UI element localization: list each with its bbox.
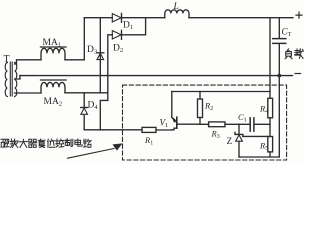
reset wire into box with resistor R1 [84,129,171,131]
svg-text:Z: Z [227,137,233,147]
wire vertical A from plus rail through D3 [99,18,101,93]
wire D2 cathode to plus rail junction [122,18,146,35]
plus rail [84,17,293,19]
wire D2 anode [108,35,113,101]
svg-text:MA2: MA2 [44,97,63,108]
svg-text:D4: D4 [88,101,99,112]
MA1 label [43,38,62,49]
mid wire with R3 [198,123,251,125]
capacitor CT plates [273,39,286,44]
svg-text:R1: R1 [144,135,153,147]
transistor base bar [176,117,178,128]
svg-text:L: L [173,2,179,12]
transformer core [10,62,12,96]
minus terminal [295,73,301,75]
svg-text:D2: D2 [113,44,123,55]
internal top wire [172,91,270,93]
minus rail / center tap wire [20,75,293,77]
zener triangle [236,135,243,141]
MA2 label [44,97,63,108]
magamp MA1 winding [41,48,65,60]
transistor emitter with arrow [172,92,175,120]
svg-text:V1: V1 [160,118,169,130]
transistor V1 [160,118,169,130]
resistor R2 [199,92,201,125]
wire MA1 output to D1 riser [65,18,84,60]
supply column to R4 [269,18,271,99]
arrow pointing to box [68,149,115,159]
transformer T label [4,54,10,65]
svg-text:C1: C1 [238,112,247,124]
capacitor C1 [250,118,254,131]
diode D1 [112,14,121,22]
wire secondary center tap to minus rail [15,76,20,79]
zener to R5 link wire [243,135,268,137]
resistor R4 [268,98,273,118]
wire MA2 output [65,92,108,94]
node jog MA2 to lower riser [100,100,108,130]
transistor collector lead [177,123,198,125]
svg-text:CT: CT [282,27,292,39]
inductor L [165,10,189,18]
svg-text:D1: D1 [123,21,133,32]
wire secondary bottom lead to MA2 [15,92,41,94]
caption 磁放大器复位控制电路 (drawn strokes) [1,139,91,148]
zener bar with hooks [235,132,243,136]
transistor base lead jog [172,128,177,130]
svg-text:R4: R4 [259,104,268,116]
magamp MA2 winding [41,82,65,93]
zener Z column [238,124,240,157]
transformer T primary winding [5,63,7,97]
diode D3 [97,52,104,54]
wire R5 bottom [269,152,271,157]
svg-text:R5: R5 [259,140,268,152]
resistor R5 [268,137,273,152]
resistor R1 [142,127,156,132]
transformer secondary winding [15,63,17,97]
wire R4 bottom to junction and R5 [269,118,271,137]
MA2 core bar [41,79,67,81]
svg-text:R3: R3 [211,129,220,141]
diode D4 column from MA2 wire down to reset wire [83,93,85,130]
dashed control box [123,85,287,160]
diode D2 [112,31,121,39]
capacitor CT column from plus rail [278,18,280,157]
plus terminal [296,12,302,18]
wire secondary top lead to MA1 [15,60,41,64]
resistor R3 [209,122,225,127]
svg-text:R2: R2 [204,101,213,113]
load label 负载 (drawn strokes) [285,49,303,59]
svg-text:D3: D3 [87,45,97,56]
MA1 core bar [41,46,67,48]
box bottom wire [239,156,279,158]
junction dot on minus rail [277,74,281,78]
